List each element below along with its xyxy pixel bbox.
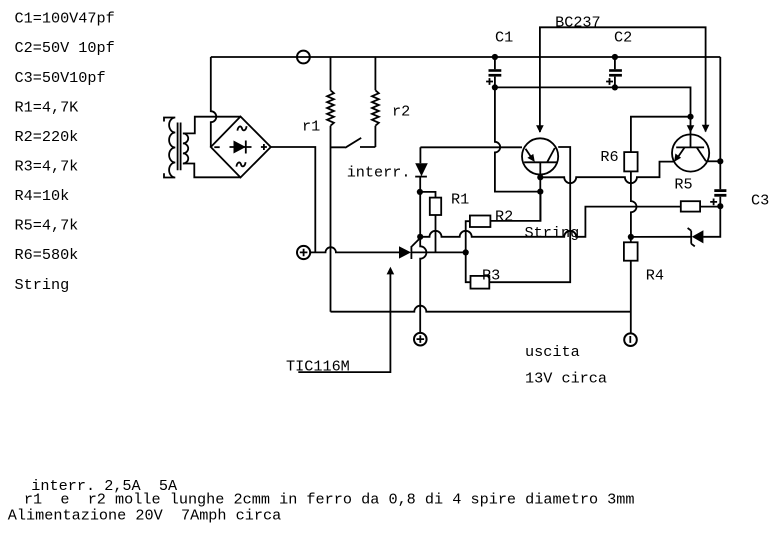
wire R1 top lead — [420, 192, 436, 198]
arrow on Q2 base pointer — [687, 125, 695, 133]
svg-text:Alimentazione 20V 7Amph circa: Alimentazione 20V 7Amph circa — [8, 506, 281, 524]
svg-text:C3=50V10pf: C3=50V10pf — [15, 69, 106, 87]
bridge minus mark — [214, 146, 219, 148]
terminal minus — [297, 51, 310, 64]
svg-text:C2=50V 10pf: C2=50V 10pf — [15, 39, 115, 57]
wire BC237 pointer rail — [540, 27, 706, 132]
junction dot 5 — [687, 114, 693, 120]
wire secondary bottom to bridge — [183, 164, 241, 178]
C3 plus mark — [710, 199, 717, 206]
Q2 base bar — [676, 146, 704, 148]
junction dot 11 — [417, 189, 423, 195]
component value list — [15, 10, 115, 294]
svg-text:R4=10k: R4=10k — [15, 187, 70, 205]
capacitor C1 plates — [489, 69, 502, 76]
svg-text:r2: r2 — [392, 102, 410, 120]
wire R6 top lead — [631, 117, 691, 152]
resistor R5 — [681, 201, 700, 211]
junction dot 7 — [717, 203, 723, 209]
wire R4 bottom to output terminal — [630, 261, 632, 334]
svg-text:BC237: BC237 — [555, 13, 601, 31]
wire SCR cathode to node — [411, 251, 465, 253]
svg-text:13V circa: 13V circa — [525, 370, 607, 388]
resistor R1 — [430, 198, 441, 215]
Q2 emitter arrow — [674, 154, 681, 162]
capacitor C2 plates — [609, 69, 622, 76]
C1 plus mark — [486, 78, 493, 85]
junction dot 12 — [417, 234, 423, 240]
svg-text:R1: R1 — [451, 191, 469, 209]
svg-text:uscita: uscita — [525, 343, 580, 361]
wire right rail C3 to zener — [703, 197, 720, 237]
bridge ac mark bottom — [236, 162, 245, 166]
svg-text:R2: R2 — [495, 207, 513, 225]
Q1 emitter diagonal — [526, 149, 534, 160]
switch interr. — [331, 138, 376, 148]
wire Q2 base from node — [690, 117, 692, 148]
wire Q1 emitter left line — [420, 146, 522, 148]
bridge ac mark top — [237, 126, 246, 130]
svg-text:String: String — [15, 276, 70, 294]
junction dot 4 — [612, 84, 618, 90]
svg-text:R1=4,7K: R1=4,7K — [15, 98, 80, 116]
wire R5 right lead — [700, 206, 720, 208]
wire bottom rail with hop — [331, 306, 631, 312]
terminal output circle — [624, 333, 637, 346]
Q1 emitter arrow — [527, 154, 534, 162]
svg-text:R4: R4 — [646, 266, 664, 284]
wire R4 top lead — [630, 237, 632, 242]
junction dot 6 — [717, 158, 723, 164]
junction dot 10 — [537, 189, 543, 195]
svg-text:R3=4,7k: R3=4,7k — [15, 158, 79, 176]
wire R2 left lead — [466, 221, 470, 252]
wire R3 right lead to Q1 collector — [489, 147, 570, 282]
svg-text:R6=580k: R6=580k — [15, 246, 79, 264]
bridge plus mark — [261, 144, 267, 150]
bridge rectifier B1 — [211, 117, 271, 178]
svg-text:R5: R5 — [674, 175, 692, 193]
resistor R2 — [470, 216, 491, 228]
thyristor SCR TIC116M triangle — [399, 246, 411, 258]
diode D1 — [415, 163, 428, 176]
wire C1 C2 to Q2 base node — [495, 87, 691, 116]
svg-text:r1: r1 — [302, 118, 320, 136]
wire Q1 base down to R2 — [539, 162, 541, 221]
transformer T1 secondary — [183, 133, 188, 163]
junction dot 8 — [628, 234, 634, 240]
wire r2 column — [374, 57, 376, 147]
Q2 collector diagonal — [697, 147, 706, 161]
transformer T1 primary — [164, 118, 175, 178]
arrow BC237 to Q2 — [702, 125, 710, 133]
wire C1 column with hop — [495, 57, 540, 192]
Q2 emitter diagonal — [679, 147, 685, 156]
wire rail to bridge minus corner with hop — [211, 57, 217, 147]
wire zener to R4 node — [631, 236, 691, 238]
bridge diode symbol — [230, 141, 252, 154]
transistor Q1 circle — [522, 138, 558, 174]
svg-text:R2=220k: R2=220k — [15, 128, 79, 146]
zener diode Z1 — [688, 228, 704, 246]
wire negative top rail — [211, 56, 721, 58]
Q1 collector diagonal — [547, 148, 555, 162]
transformer T1 core — [178, 123, 181, 171]
spring r2 — [372, 90, 379, 125]
wire gate node down to plus terminal with hops — [420, 237, 426, 333]
terminal plus bottom — [414, 333, 427, 346]
svg-text:interr.: interr. — [347, 163, 411, 181]
spring r1 — [327, 90, 334, 125]
svg-text:C1: C1 — [495, 29, 513, 47]
resistor R4 — [624, 242, 638, 260]
arrow TIC116M pointer — [387, 267, 395, 275]
wire Q1 emitter line to diode D1 — [420, 147, 421, 237]
wire R1 bottom lead — [435, 215, 437, 252]
SCR cathode bar — [410, 246, 412, 259]
C2 plus mark — [606, 78, 613, 85]
wire bridge plus to terminal and SCR anode — [271, 147, 399, 252]
junction dot 2 — [612, 54, 618, 60]
wire secondary top to bridge — [183, 117, 241, 134]
wire R3 left lead — [466, 252, 471, 282]
svg-text:C1=100V47pf: C1=100V47pf — [15, 10, 115, 28]
wire R6 bottom lead with hop — [631, 171, 637, 237]
wire Q2 collector to right rail — [706, 160, 720, 162]
terminal plus left — [297, 246, 310, 259]
wire Q1 base node to Q2 emitter with hops — [540, 162, 675, 184]
svg-text:C2: C2 — [614, 29, 632, 47]
junction dot 9 — [537, 174, 543, 180]
Q1 base bar — [524, 161, 557, 163]
wire right rail top — [719, 57, 721, 189]
wire TIC116M pointer — [298, 269, 390, 372]
capacitor C3 plates — [714, 189, 726, 197]
transistor Q2 circle — [672, 134, 709, 171]
svg-text:R5=4,7k: R5=4,7k — [15, 217, 79, 235]
junction dot 3 — [492, 84, 498, 90]
wire C2 column — [614, 57, 616, 87]
resistor R3 — [471, 276, 490, 289]
wire r1 column — [330, 57, 332, 312]
junction dot 13 — [463, 249, 469, 255]
wire R2 right lead to Q1 base — [490, 192, 540, 221]
wire gate node to R5 with hops — [420, 207, 681, 237]
svg-text:R6: R6 — [600, 148, 618, 166]
svg-text:C3: C3 — [751, 192, 769, 210]
resistor R6 — [624, 152, 637, 171]
junction dot 1 — [492, 54, 498, 60]
SCR gate lead — [412, 238, 420, 246]
arrow BC237 to Q1 — [536, 125, 544, 133]
